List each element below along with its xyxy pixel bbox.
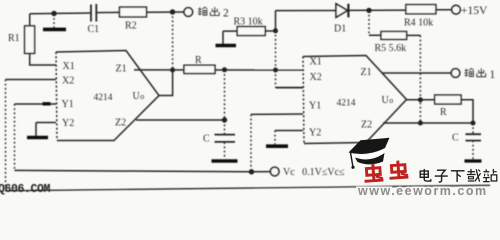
wire IC2 output row <box>407 100 474 123</box>
wire top-right row to diode <box>276 10 337 12</box>
svg-text:2: 2 <box>223 8 229 20</box>
ground top-left <box>43 28 66 32</box>
svg-text:X2: X2 <box>62 76 74 87</box>
wire R3 leads <box>223 31 276 44</box>
capacitor C right leads <box>472 123 474 160</box>
wire R4 to +15V terminal <box>436 9 452 11</box>
terminal Vc <box>270 167 279 176</box>
svg-text:R: R <box>440 107 447 118</box>
svg-text:Y2: Y2 <box>62 118 74 129</box>
thick mark on Y1 wire IC1 <box>43 102 51 105</box>
wire corner above R3 <box>275 11 277 31</box>
svg-text:o: o <box>140 92 144 101</box>
wire top-left row <box>30 12 91 15</box>
wire Z2 IC1 <box>136 119 225 121</box>
watermark tassel <box>351 153 353 167</box>
svg-text:+15V: +15V <box>461 5 488 17</box>
wire Y2 pin IC2 <box>275 130 303 132</box>
svg-text:Q606.COM: Q606.COM <box>0 183 51 196</box>
terminal 输出1 <box>451 69 460 78</box>
riser R5 right down to IC2 output and Z2 <box>419 35 421 123</box>
resistor R4 <box>406 5 436 14</box>
capacitor C right plates <box>466 134 482 140</box>
svg-text:Z1: Z1 <box>116 64 127 75</box>
riser X2 jog IC2 <box>275 70 277 88</box>
svg-text:R4 10k: R4 10k <box>404 18 433 29</box>
svg-text:Z1: Z1 <box>361 67 372 78</box>
wire R5 leads <box>369 34 421 36</box>
wire X2 jog IC2 <box>276 87 304 89</box>
wire Z1 IC2 to output1 terminal <box>382 72 451 74</box>
dotted risers <box>6 11 474 190</box>
capacitor C1 plates <box>91 4 96 22</box>
wire X2 pin IC1 <box>6 79 57 81</box>
terminal 输出2 <box>184 8 193 17</box>
riser X2 IC1 down to bus B <box>5 80 7 190</box>
svg-text:Y1: Y1 <box>62 99 74 110</box>
diode D1 <box>336 4 348 17</box>
wire ground stub top-left <box>53 14 55 28</box>
watermark text dianzi xiazaizhan <box>420 169 497 182</box>
wire Z1 row IC1 to IC2 X1 <box>134 69 303 71</box>
svg-text:C: C <box>203 134 210 145</box>
riser Vc to Y1 IC2 <box>250 114 252 171</box>
watermark cap white stripe <box>350 149 387 158</box>
svg-text:4214: 4214 <box>94 93 113 103</box>
wire ground stub IC1 Y2 <box>35 123 37 136</box>
svg-text:4214: 4214 <box>337 99 356 109</box>
svg-text:Y1: Y1 <box>309 101 321 112</box>
svg-text:Y2: Y2 <box>309 128 321 139</box>
riser R3 node down to X1 wire IC2 <box>275 31 277 71</box>
riser diode node to R5 <box>368 11 370 36</box>
ground R3 <box>216 44 237 48</box>
svg-text:D1: D1 <box>334 24 346 35</box>
svg-text:R2: R2 <box>125 21 137 32</box>
svg-text:C1: C1 <box>88 24 100 35</box>
svg-text:Z2: Z2 <box>361 120 372 131</box>
wire bus B (bottom line) <box>5 185 490 191</box>
wire bus A (Vc line) <box>15 170 271 171</box>
wire C1 to R2 <box>96 11 119 13</box>
resistor R1 leads <box>29 14 31 65</box>
wire Z2 IC2 <box>383 122 473 124</box>
op-amp/multiplier U1 body (4214) <box>56 51 159 141</box>
svg-text:1: 1 <box>490 69 496 81</box>
svg-text:R3 10k: R3 10k <box>234 17 263 28</box>
svg-text:R5 5.6k: R5 5.6k <box>375 43 407 54</box>
wire X1 pin IC1 <box>29 64 56 66</box>
svg-text:R: R <box>195 55 202 66</box>
label 输出 2 (drawn glyphs) <box>198 7 229 19</box>
svg-text:o: o <box>389 96 393 105</box>
capacitor C mid lower lead <box>224 142 226 159</box>
resistor R (output U2) <box>435 95 461 104</box>
ground IC2 Y2 <box>266 144 288 148</box>
wire Y1 pin IC2 <box>251 113 303 115</box>
svg-text:X1: X1 <box>63 61 75 72</box>
riser Z1 node down through Z2 node to capacitor C mid <box>224 70 226 135</box>
resistor R1 <box>25 26 35 54</box>
resistor R3 <box>237 27 265 36</box>
ground C mid <box>212 159 238 163</box>
wire diode to R4 <box>348 9 406 11</box>
wire Y2 pin IC1 <box>36 122 56 124</box>
svg-text:X1: X1 <box>310 57 322 68</box>
riser Y1 IC1 down to bus A <box>14 104 16 170</box>
op-amp/multiplier U2 body (4214) <box>303 56 407 144</box>
watermark cap skull <box>355 153 385 164</box>
resistor R (feedback U1) <box>184 65 215 73</box>
watermark group <box>349 138 497 198</box>
resistor R5 <box>381 32 407 40</box>
svg-text:X2: X2 <box>310 72 322 83</box>
capacitor C mid plates <box>215 135 236 142</box>
ground IC1 Y2 <box>27 136 48 140</box>
terminal +15V <box>452 5 461 14</box>
label 输出 1 (drawn glyphs) <box>464 68 495 81</box>
watermark graduation cap board <box>349 138 390 154</box>
svg-text:C: C <box>452 133 459 144</box>
wire Uo step IC1 <box>159 70 173 96</box>
svg-text:R1: R1 <box>8 33 20 44</box>
svg-text:Vc 0.1V≤Vc≤: Vc 0.1V≤Vc≤ <box>283 167 345 178</box>
wire Y1 pin IC1 <box>15 103 57 105</box>
wire R2 to output2 terminal <box>147 11 184 13</box>
svg-text:www.eeworm.com: www.eeworm.com <box>357 184 488 197</box>
svg-text:U: U <box>133 91 141 102</box>
resistor R2 <box>120 7 147 17</box>
svg-text:U: U <box>382 95 390 106</box>
watermark chong chong red glyphs <box>363 163 383 181</box>
ground stub IC2 Y2 <box>274 131 276 145</box>
ground C right <box>465 159 482 162</box>
svg-text:Z2: Z2 <box>115 118 126 129</box>
riser output2 node down to Z1 node <box>172 12 174 70</box>
